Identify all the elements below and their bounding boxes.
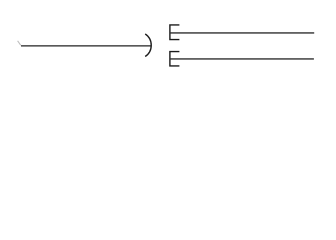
wire from J1: [170, 32, 314, 34]
stray tick at wire start: [18, 41, 21, 45]
connector plug P1 (male, curved blade): [145, 34, 151, 57]
wire from J2: [170, 58, 314, 60]
connector jack J2 (female, E-shaped): [170, 52, 180, 66]
connector jack J1 (female, E-shaped): [170, 25, 180, 40]
wire: [21, 45, 151, 47]
